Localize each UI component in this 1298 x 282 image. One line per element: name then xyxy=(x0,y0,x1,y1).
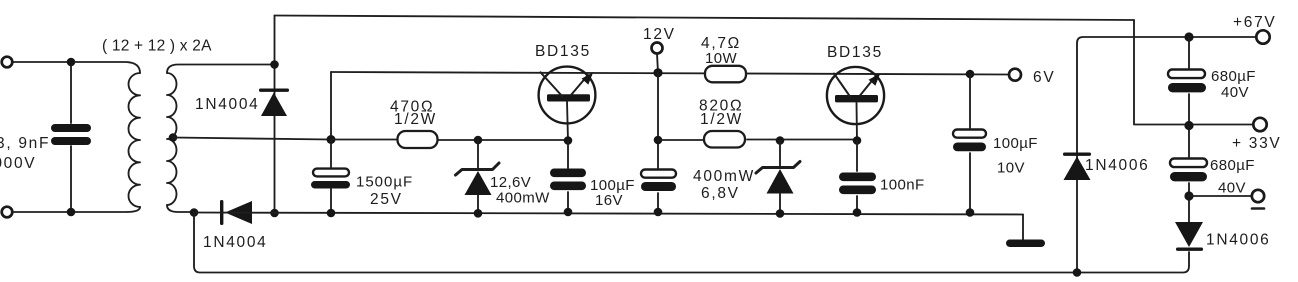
node: secondary centre tap xyxy=(169,133,178,142)
svg-text:16V: 16V xyxy=(595,192,623,209)
wire: base feed y140 from filter node to Q1 base xyxy=(331,139,568,142)
label 16V xyxy=(595,192,623,209)
label C1 value 3,9nF xyxy=(0,135,50,152)
transistor Q2 collector lead xyxy=(834,74,850,97)
terminal +67V xyxy=(1256,30,1269,43)
node: +33V at 680uF column xyxy=(1184,121,1193,130)
svg-text:400mW: 400mW xyxy=(496,190,550,207)
svg-text:12,6V: 12,6V xyxy=(490,174,531,191)
node: minus terminal junction xyxy=(1184,191,1193,200)
wire: centre tap to node at x331 xyxy=(173,138,331,140)
wire: vertical rectifier branch x274 (top rail to bottom rail) xyxy=(274,16,276,214)
capacitor 1500uF leads xyxy=(330,140,332,214)
label +67V xyxy=(1233,14,1276,31)
transistor Q1 BD135 body circle xyxy=(539,67,596,124)
label 40V (bottom) xyxy=(1218,180,1246,197)
node: secondary top / diode branch xyxy=(270,60,279,69)
label 6V xyxy=(1033,69,1055,86)
node: bottom input junction xyxy=(67,208,76,217)
zener Z1 12,6V leads xyxy=(477,140,479,213)
label 470R xyxy=(390,99,434,116)
node: filter node x331 xyxy=(327,135,336,144)
node: return rail at D3 xyxy=(1073,268,1082,277)
label D4 1N4006 xyxy=(1206,232,1271,249)
label 10V xyxy=(997,160,1025,177)
wire: bottom rail end stub xyxy=(1022,215,1024,241)
wire: secondary top to rectifier xyxy=(167,65,275,74)
svg-text:BD135: BD135 xyxy=(827,44,883,61)
zener Z2 leads xyxy=(779,141,781,214)
capacitor 680uF/40V (top) plates xyxy=(1168,70,1206,93)
label 100nF xyxy=(880,177,925,194)
capacitor C1 plates xyxy=(51,124,91,145)
svg-text:+ 33V: + 33V xyxy=(1232,135,1281,152)
label transformer rating (12+12) x 2A xyxy=(102,38,212,55)
transistor Q2 base lead down xyxy=(856,103,859,141)
wire: top input to transformer primary xyxy=(13,62,140,73)
wire: top rail corner down to +33V line xyxy=(1134,20,1253,125)
svg-text:40V: 40V xyxy=(1221,84,1249,101)
label 820R xyxy=(699,98,743,115)
label D3 1N4006 xyxy=(1085,157,1150,174)
svg-text:6,8V: 6,8V xyxy=(701,185,740,202)
capacitor 680uF/40V (bottom) plates xyxy=(1170,159,1207,182)
label 40V (top) xyxy=(1221,84,1249,101)
capacitor 1500uF plates xyxy=(311,169,350,189)
label 400mW (Z2) xyxy=(693,168,755,185)
svg-text:680µF: 680µF xyxy=(1210,157,1255,174)
capacitor 100nF leads xyxy=(856,141,858,213)
wire: secondary bottom to rail xyxy=(167,205,194,212)
label D2 1N4004 xyxy=(203,234,268,251)
wire: bottom input to transformer primary xyxy=(13,207,140,212)
node: 6V rail junction xyxy=(966,70,975,79)
transistor Q1 base bar xyxy=(547,94,590,101)
node: bottom rail at transformer xyxy=(190,208,199,217)
transistor Q2 BD135 body circle xyxy=(827,67,884,124)
wire: 12V column down xyxy=(657,73,659,212)
wire: 12V terminal stub xyxy=(657,54,658,73)
transistor Q1 collector lead xyxy=(541,72,563,96)
capacitor on 12V rail plates xyxy=(641,170,676,192)
node: bottom rail at 1500uF xyxy=(327,209,336,218)
label +33V xyxy=(1232,135,1281,152)
diode D1 1N4004 (vertical, cathode up) xyxy=(259,89,289,117)
node: bottom rail at rectifier branch xyxy=(270,209,279,218)
svg-text:1500µF: 1500µF xyxy=(356,174,413,191)
wire: 680uF column xyxy=(1188,37,1190,222)
capacitor 100uF/10V plates xyxy=(953,130,986,152)
wire: bottom rail xyxy=(194,213,1023,215)
capacitor C1 3,9nF/2000V leads xyxy=(70,62,72,212)
zener Z2 triangle xyxy=(767,169,794,194)
label 100uF (10V) xyxy=(993,135,1038,152)
node: zener Z2 top xyxy=(776,136,785,145)
bottom rail end bar terminal xyxy=(1006,240,1045,248)
label 12V xyxy=(643,26,676,43)
svg-text:1N4006: 1N4006 xyxy=(1206,232,1271,249)
svg-text:40V: 40V xyxy=(1218,180,1246,197)
node: bottom rail at zener Z2 xyxy=(776,209,785,218)
node: bottom rail at 100uF/10V xyxy=(966,208,975,217)
svg-text:100µF: 100µF xyxy=(993,135,1038,152)
wire: 820R feed y139 xyxy=(658,139,857,142)
node: 820R tap xyxy=(654,136,663,145)
wire: minus terminal stub xyxy=(1189,195,1251,197)
transistor Q1 base lead down xyxy=(567,102,568,141)
svg-text:1N4004: 1N4004 xyxy=(203,234,268,251)
label Q2 BD135 xyxy=(827,44,883,61)
label 1/2W (820R) xyxy=(700,111,743,128)
wire: D3 to bottom return rail xyxy=(1076,180,1078,273)
terminal minus xyxy=(1252,190,1264,202)
transistor Q2 base bar xyxy=(835,95,878,102)
svg-text:100nF: 100nF xyxy=(880,177,925,194)
node: bottom rail at zener Z1 xyxy=(474,209,483,218)
svg-text:+67V: +67V xyxy=(1233,14,1276,31)
node: top input junction xyxy=(67,58,76,67)
label 4,7R xyxy=(701,35,741,52)
capacitor 100uF/10V leads xyxy=(969,74,971,212)
label 10 W xyxy=(705,50,737,67)
svg-text:3, 9nF: 3, 9nF xyxy=(0,135,50,152)
label D1 1N4004 xyxy=(195,96,260,113)
input terminal bottom xyxy=(2,207,13,218)
zener Z1 cathode bar with bent ends xyxy=(456,163,500,175)
svg-text:10V: 10V xyxy=(997,160,1025,177)
label 100uF xyxy=(590,177,635,194)
svg-text:6V: 6V xyxy=(1033,69,1055,86)
node: zener Z1 top xyxy=(474,136,483,145)
svg-text:10W: 10W xyxy=(705,50,737,67)
wire: bottom-most return rail xyxy=(194,213,1189,273)
zener Z1 triangle xyxy=(465,171,492,195)
label 680uF (top) xyxy=(1211,68,1256,85)
capacitor 100uF/16V plates xyxy=(550,169,586,191)
capacitor 100uF/16V leads xyxy=(567,141,569,213)
svg-text:1/2W: 1/2W xyxy=(700,111,743,128)
transformer T1 secondary winding xyxy=(167,73,177,205)
svg-text:400mW: 400mW xyxy=(693,168,755,185)
label 1500uF xyxy=(356,174,413,191)
node: bottom rail at 12V cap xyxy=(654,208,663,217)
svg-text:25V: 25V xyxy=(370,191,403,208)
diode D2 1N4004 (horizontal on bottom rail, cathode left) xyxy=(220,200,252,225)
capacitor 100nF plates xyxy=(839,173,876,195)
node: Q1 base junction xyxy=(564,136,573,145)
label 6,8V xyxy=(701,185,740,202)
svg-text:BD135: BD135 xyxy=(535,43,591,60)
terminal 6V xyxy=(1009,69,1021,81)
terminal +33V xyxy=(1253,118,1266,131)
resistor 470R box xyxy=(398,131,438,148)
label minus sign xyxy=(1252,207,1264,210)
terminal 12V xyxy=(652,43,663,54)
label 12,6V xyxy=(490,174,531,191)
diode D4 1N4006 (cathode down) xyxy=(1175,222,1203,251)
label Q1 BD135 xyxy=(535,43,591,60)
svg-text:1N4004: 1N4004 xyxy=(195,96,260,113)
label C1 voltage 2000V xyxy=(0,155,36,172)
node: 12V rail junction xyxy=(653,68,662,77)
label 1/2W xyxy=(394,111,437,128)
wire: +67V line xyxy=(1077,37,1257,160)
transistor Q1 emitter lead with arrow xyxy=(571,72,593,95)
diode D3 1N4006 (cathode up) xyxy=(1063,153,1091,181)
svg-text:1N4006: 1N4006 xyxy=(1085,157,1150,174)
svg-text:( 12 + 12 ) x 2A: ( 12 + 12 ) x 2A xyxy=(102,38,212,55)
resistor 4,7R box xyxy=(705,66,746,83)
transistor Q2 emitter lead with arrow xyxy=(860,73,880,95)
zener Z2 cathode bar with bent ends xyxy=(756,162,800,174)
svg-text:12V: 12V xyxy=(643,26,676,43)
svg-text:2000V: 2000V xyxy=(0,155,36,172)
wire: +12V rail y72 xyxy=(331,72,1009,75)
node: +67V at 680uF column xyxy=(1184,32,1193,41)
node: Q2 base junction xyxy=(853,136,862,145)
node: bottom rail at 100uF/16V xyxy=(564,208,573,217)
node: bottom rail at 100nF xyxy=(853,208,862,217)
svg-text:1/2W: 1/2W xyxy=(394,111,437,128)
label 25V xyxy=(370,191,403,208)
input terminal top xyxy=(2,57,13,68)
wire: corner x331 down to filter node xyxy=(330,72,332,140)
label 680uF (bottom) xyxy=(1210,157,1255,174)
wire: top rail xyxy=(275,16,1135,21)
label 400mW xyxy=(496,190,550,207)
transformer T1 primary winding xyxy=(128,73,140,207)
svg-text:680µF: 680µF xyxy=(1211,68,1256,85)
resistor 820R box xyxy=(704,131,745,148)
